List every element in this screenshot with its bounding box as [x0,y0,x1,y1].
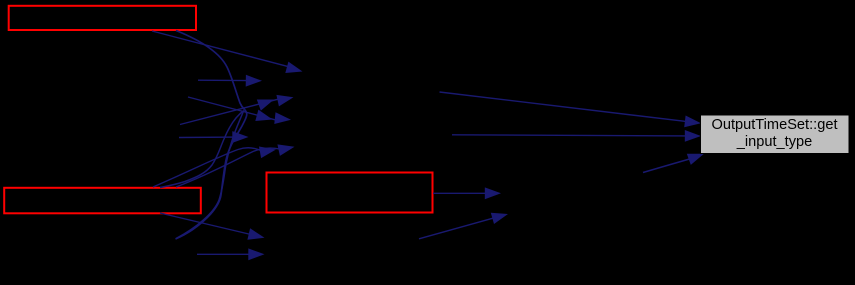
edge long S-curve lower to bottom node [176,110,247,240]
edge knot to box2 top corner [160,111,244,188]
node OutputTimeSet::get_input_type (current) [701,115,850,154]
edge box1 to node M1 [152,31,303,73]
edge node M4 to get_input_type [452,130,701,142]
edge node B to mid nodes [188,97,291,124]
edge box2 top to node M7 [176,144,295,187]
edge bundle strand 2 [176,111,244,239]
edge node C to upper nodes [180,95,294,125]
edge box2 top to node M6 [153,147,276,188]
edge box2 bottom to node M8 [160,213,265,240]
edge box1 long S-curve upper [176,31,245,110]
edge box3 to node M9 [433,187,501,199]
node box1 (truncated caller, top-left) [9,6,196,30]
edge node M9 to get_input_type [643,154,704,173]
edge node F to node M8 second [197,248,265,260]
label text of current node [700,115,849,153]
edge node M1 to get_input_type [440,92,702,127]
edge node D to node M5 [179,131,249,143]
node box2 (truncated caller, bottom-left) [4,188,201,214]
edge node A to node M2 [198,75,262,87]
node box3 (truncated caller, middle) [267,173,433,213]
edge bottom node to node M10 [419,213,508,239]
